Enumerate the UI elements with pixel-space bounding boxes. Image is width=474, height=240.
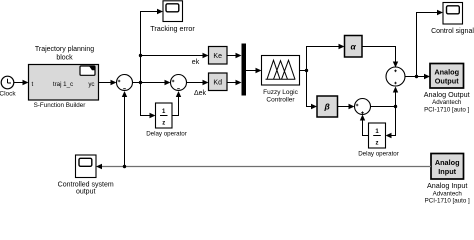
gain alpha — [345, 36, 363, 58]
control signal scope — [431, 3, 474, 36]
svg-text:output: output — [76, 189, 96, 196]
analog input block — [425, 154, 470, 205]
svg-text:Controlled system: Controlled system — [58, 181, 114, 188]
svg-text:α: α — [351, 41, 357, 51]
wire delay operator 2 to sum4 — [360, 115, 369, 136]
summing junction sum3 (control signal) — [386, 67, 405, 86]
gain Ke — [209, 47, 228, 65]
wire beta to sum4 — [338, 104, 355, 109]
svg-text:Advantech: Advantech — [432, 99, 462, 106]
summing junction sum1 (error) — [117, 75, 133, 91]
node FLC output junction — [305, 69, 308, 72]
svg-text:Kd: Kd — [213, 79, 222, 86]
svg-text:Clock: Clock — [0, 91, 16, 98]
tracking error scope — [150, 1, 195, 33]
fuzzy logic controller block — [262, 56, 300, 104]
svg-text:Analog Input: Analog Input — [427, 181, 467, 190]
trajectory planning block U1 (S-Function Builder) — [29, 46, 99, 109]
wire FLC output to branch node — [300, 70, 307, 72]
wire feedback up to sum1 — [122, 91, 127, 167]
wire sum4 to sum3 — [371, 87, 399, 107]
summing junction sum4 (adaptive integrator) — [355, 99, 371, 115]
svg-text:z: z — [376, 141, 379, 147]
svg-text:Controller: Controller — [266, 97, 295, 104]
svg-text:S-Function Builder: S-Function Builder — [34, 102, 86, 109]
svg-text:β: β — [324, 102, 330, 112]
wire Kd to mux — [227, 80, 242, 85]
svg-text:Delay operator: Delay operator — [146, 131, 187, 138]
summing junction sum2 (delta ek) — [171, 75, 187, 91]
wire trajectory to sum1 — [99, 80, 117, 85]
wire sum3 to analog output — [405, 74, 430, 79]
wire branch down to delay operator 2 (mirrored input) — [386, 107, 396, 139]
svg-text:PCI-1710 [auto ]: PCI-1710 [auto ] — [425, 198, 470, 204]
node sum4 output junction — [394, 105, 397, 108]
wire sum2 to gain Kd — [187, 80, 209, 85]
wire branch up to control signal scope — [417, 10, 444, 77]
gain beta — [317, 96, 338, 117]
svg-text:Advantech: Advantech — [433, 190, 463, 197]
wire ek to gain Ke — [141, 53, 209, 58]
node ek branch junction — [139, 81, 142, 84]
wire alpha to sum3 — [362, 47, 398, 68]
svg-text:Fuzzy Logic: Fuzzy Logic — [263, 89, 298, 96]
wire analog input feedback (bottom) — [96, 164, 431, 169]
wire sum1 to sum2 — [133, 80, 171, 85]
node feedback junction — [123, 165, 126, 168]
svg-text:Trajectory planning: Trajectory planning — [35, 46, 94, 53]
wire delay operator 1 to sum2 — [172, 91, 181, 116]
wire branch down to gain beta — [307, 71, 318, 110]
svg-text:PCI-1710 [auto ]: PCI-1710 [auto ] — [424, 106, 469, 113]
svg-text:Control signal: Control signal — [431, 28, 474, 35]
delay operator 2 (1/z, mirrored) — [358, 123, 399, 158]
wire ek branch up to tracking error scope — [141, 9, 164, 83]
wire ek branch down to delay operator 1 — [141, 83, 156, 119]
wire mux to fuzzy logic controller — [246, 68, 262, 73]
svg-text:Input: Input — [438, 167, 456, 176]
analog output block — [424, 64, 470, 114]
wire Ke to mux — [227, 53, 242, 58]
svg-text:traj 1_c: traj 1_c — [53, 81, 73, 88]
svg-text:Δek: Δek — [194, 90, 207, 97]
delay operator 1 (1/z) — [146, 103, 187, 138]
svg-text:Ke: Ke — [213, 53, 222, 60]
svg-text:t: t — [32, 81, 34, 88]
clock — [0, 76, 16, 97]
svg-text:Output: Output — [435, 77, 459, 86]
wire clock to trajectory block — [14, 80, 29, 85]
mux — [242, 44, 247, 96]
svg-text:ek: ek — [192, 59, 200, 66]
svg-text:yc: yc — [88, 81, 94, 88]
svg-text:Analog Output: Analog Output — [424, 90, 470, 99]
svg-text:z: z — [162, 121, 165, 127]
node control signal junction — [415, 75, 418, 78]
controlled system output scope (mirrored) — [58, 155, 114, 196]
svg-text:Analog: Analog — [435, 158, 460, 167]
svg-text:Tracking error: Tracking error — [150, 24, 195, 33]
svg-text:block: block — [56, 55, 73, 62]
node ek to Ke junction — [139, 54, 142, 57]
gain Kd — [209, 73, 228, 91]
wire branch up to gain alpha — [307, 44, 345, 71]
svg-text:Analog: Analog — [434, 68, 459, 77]
svg-text:Delay operator: Delay operator — [358, 151, 399, 158]
